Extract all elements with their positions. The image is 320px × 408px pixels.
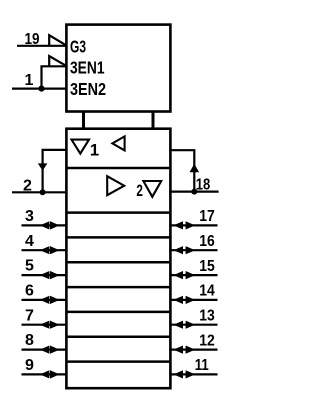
- array body outline: [66, 129, 170, 389]
- buffer symbol row2 triangle down: [143, 181, 161, 197]
- divider ch4/ch5: [66, 286, 170, 289]
- svg-text:16: 16: [199, 233, 215, 250]
- wire branch pin2 to row1: [43, 150, 68, 192]
- arrows pin 3: [40, 221, 50, 229]
- wire pin 19: [17, 45, 68, 47]
- amplifier symbol left-pointing: [112, 136, 124, 150]
- svg-text:5: 5: [25, 258, 34, 275]
- arrows pin 12: [173, 346, 183, 354]
- svg-text:12: 12: [199, 332, 215, 349]
- wire pin 11: [169, 373, 217, 375]
- arrows pin 7: [40, 321, 50, 329]
- arrows pin 4: [40, 246, 50, 254]
- amplifier symbol right-pointing: [107, 176, 124, 195]
- arrows pin 15: [173, 271, 183, 279]
- svg-text:14: 14: [199, 283, 215, 300]
- divider ch3/ch4: [66, 261, 170, 264]
- wire pin 13: [169, 324, 217, 326]
- svg-text:7: 7: [25, 307, 34, 324]
- buffer symbol row1 triangle down 1: [72, 140, 90, 154]
- svg-text:4: 4: [25, 233, 34, 250]
- svg-text:13: 13: [199, 308, 215, 325]
- wire pin 17: [169, 224, 217, 226]
- arrows pin 5: [40, 271, 50, 279]
- wire pin 16: [169, 249, 217, 251]
- svg-text:1: 1: [25, 72, 34, 89]
- arrows pin 11: [173, 370, 183, 378]
- wire branch to 3EN1: [42, 66, 68, 88]
- arrow up on pin18 branch: [190, 164, 200, 173]
- polarity wedge G3: [49, 35, 67, 46]
- arrows pin 9: [40, 370, 50, 378]
- wire pin 18: [169, 191, 218, 193]
- svg-text:3EN2: 3EN2: [70, 79, 106, 99]
- divider ch2/ch3: [66, 236, 170, 239]
- arrow down on pin2 branch: [38, 163, 48, 170]
- arrows pin 16: [173, 246, 183, 254]
- divider ch5/ch6: [66, 311, 170, 314]
- neck leg right: [152, 112, 155, 130]
- node junction pin1: [38, 86, 44, 92]
- wire pin 14: [169, 299, 217, 301]
- wire pin 7: [22, 324, 68, 326]
- svg-text:11: 11: [195, 357, 209, 374]
- wire pin 15: [169, 274, 217, 276]
- divider row2/ch2: [66, 211, 170, 214]
- svg-text:15: 15: [199, 258, 215, 275]
- svg-text:1: 1: [90, 140, 99, 159]
- svg-text:9: 9: [25, 357, 34, 374]
- arrows pin 13: [173, 321, 183, 329]
- wire pin 12: [169, 349, 217, 351]
- wire pin 2: [12, 191, 68, 193]
- svg-text:17: 17: [199, 208, 215, 225]
- arrows pin 8: [40, 346, 50, 354]
- svg-text:8: 8: [25, 332, 34, 349]
- wire pin 6: [22, 299, 68, 301]
- node junction pin2: [40, 189, 46, 195]
- wire pin 9: [22, 373, 68, 375]
- divider row1/row2: [66, 167, 170, 170]
- arrows pin 14: [173, 296, 183, 304]
- svg-text:G3: G3: [70, 36, 86, 56]
- wire pin 5: [22, 274, 68, 276]
- svg-text:3: 3: [25, 208, 34, 225]
- divider ch6/ch7: [66, 336, 170, 339]
- svg-text:2: 2: [136, 181, 143, 200]
- polarity wedge 3EN1: [49, 56, 67, 66]
- wire branch pin18 to row1: [169, 150, 194, 191]
- node junction pin18: [191, 189, 197, 195]
- control block U1 outline: [66, 25, 170, 112]
- wire pin 4: [22, 249, 68, 251]
- svg-text:6: 6: [25, 283, 34, 300]
- divider ch7/ch8: [66, 360, 170, 363]
- arrows pin 6: [40, 296, 50, 304]
- wire pin 3: [22, 224, 68, 226]
- wire pin 8: [22, 349, 68, 351]
- arrows pin 17: [173, 221, 183, 229]
- wire pin 1: [12, 87, 68, 89]
- neck leg left: [82, 112, 85, 130]
- svg-text:3EN1: 3EN1: [70, 58, 105, 78]
